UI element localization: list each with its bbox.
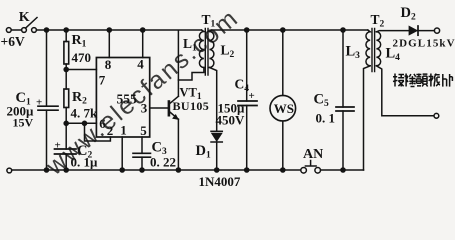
wire R1 branch	[65, 30, 67, 42]
node pin8 top	[107, 28, 111, 32]
node C3 ground	[140, 168, 144, 172]
terminal output bottom	[434, 113, 439, 118]
node pin4 top	[141, 28, 145, 32]
capacitor C5	[336, 107, 354, 111]
diode D2	[409, 26, 417, 35]
svg-text:WS: WS	[274, 101, 294, 116]
diode D1	[211, 130, 222, 132]
node WS ground	[281, 168, 285, 172]
terminal output top	[434, 28, 439, 33]
ground rail bottom	[12, 169, 364, 171]
svg-text:L2: L2	[221, 43, 235, 61]
svg-text:+: +	[55, 140, 61, 152]
svg-text:D1: D1	[196, 143, 211, 161]
svg-text:R2: R2	[72, 90, 87, 107]
wire L4 bottom to output	[376, 66, 433, 116]
wire emitter to ground	[177, 119, 179, 170]
wire C5 to ground	[342, 111, 344, 170]
watermark www.elecfans.com	[40, 3, 244, 181]
svg-text:15V: 15V	[13, 116, 34, 130]
svg-text:K: K	[19, 10, 30, 25]
transformer T1 core	[205, 29, 208, 76]
wire C1 branch	[46, 30, 48, 106]
wire R2 to node6	[65, 108, 67, 150]
node C4 ground	[245, 168, 249, 172]
svg-text:450V: 450V	[216, 113, 246, 128]
node C1 ground	[44, 168, 48, 172]
terminal ground left	[7, 168, 12, 173]
wire collector up / L1 bottom	[177, 31, 179, 97]
pushbutton AN	[301, 168, 307, 174]
wire pin7	[66, 69, 96, 71]
node pin6 junction R2	[64, 121, 68, 125]
node C5 top	[341, 28, 345, 32]
svg-text:+: +	[36, 97, 42, 109]
svg-text:BU105: BU105	[173, 99, 210, 113]
node emitter ground	[176, 168, 180, 172]
terminal +6V	[6, 28, 11, 33]
node C1 top	[44, 28, 48, 32]
wire L2 top to rail	[209, 30, 343, 32]
IC 555 box U1	[96, 58, 149, 138]
capacitor C4	[238, 101, 257, 106]
wire pin5 to C3	[141, 137, 143, 153]
wire pin6	[66, 122, 96, 124]
svg-text:0. 1μ: 0. 1μ	[71, 155, 99, 170]
svg-text:L3: L3	[346, 44, 361, 62]
node R1 top	[64, 28, 68, 32]
wire C4 branch	[246, 30, 248, 101]
svg-text:2DGL15kV: 2DGL15kV	[393, 38, 455, 50]
svg-text:D2: D2	[401, 5, 416, 23]
node pin7 junction	[64, 67, 68, 71]
svg-text:8: 8	[105, 57, 112, 72]
switch K lever	[26, 18, 38, 29]
wire C4 to ground	[246, 106, 248, 171]
wire WS top branch	[282, 30, 284, 95]
svg-text:0. 1: 0. 1	[316, 111, 336, 126]
transformer T2 core	[372, 29, 375, 72]
svg-text:+6V: +6V	[1, 34, 25, 49]
wire D2 to output	[418, 30, 434, 32]
wire L3 bottom to ground rail	[364, 66, 371, 170]
wire WS to ground	[282, 121, 284, 170]
node pin2 junction	[82, 121, 86, 125]
wire C1 to ground rail	[46, 110, 48, 170]
svg-text:5: 5	[140, 123, 147, 138]
svg-text:+: +	[249, 90, 255, 102]
transformer T1 winding L2	[209, 32, 214, 68]
wire L3 top to rail	[343, 29, 368, 31]
transformer T1 winding L1	[199, 30, 204, 68]
wire C3 to ground	[141, 157, 143, 170]
svg-text:4. 7k: 4. 7k	[71, 106, 99, 121]
wire pin8	[108, 30, 110, 58]
node C2 ground	[64, 168, 68, 172]
node D1 ground	[215, 168, 219, 172]
node WS top	[281, 28, 285, 32]
svg-text:C5: C5	[314, 92, 329, 110]
svg-text:6: 6	[99, 116, 106, 131]
resistor R2	[64, 89, 69, 108]
svg-text:555: 555	[117, 92, 138, 107]
capacitor C1	[38, 106, 58, 110]
wire C2 to ground	[65, 154, 67, 170]
svg-text:1: 1	[120, 123, 127, 138]
lamp WS circle	[270, 95, 296, 121]
wire L2 bottom to D1	[209, 68, 216, 132]
wire pin3 to base	[150, 107, 168, 109]
top rail +6V wire	[11, 29, 201, 31]
svg-text:T2: T2	[371, 12, 385, 30]
label jie chu chan ban pian (CJK glyph strokes)	[393, 74, 452, 87]
wire D1 to ground	[216, 142, 218, 170]
node C4 top	[245, 28, 249, 32]
svg-text:AN: AN	[303, 147, 323, 162]
wire C5 branch	[342, 30, 344, 107]
wire L4 top to D2	[376, 31, 409, 32]
switch K contact circles	[22, 28, 27, 33]
wire pin2 route	[85, 123, 111, 141]
svg-text:470: 470	[72, 50, 92, 65]
svg-text:1N4007: 1N4007	[199, 174, 241, 189]
wire L1 bottom jog	[178, 68, 204, 81]
wire pin4	[142, 30, 144, 58]
svg-text:2: 2	[107, 123, 114, 138]
node C5 ground	[341, 168, 345, 172]
svg-text:3: 3	[141, 101, 148, 116]
wire R1 to node7	[65, 64, 67, 89]
capacitor C2	[55, 149, 77, 154]
transformer T2 winding L3	[366, 30, 370, 66]
svg-text:4: 4	[137, 57, 144, 72]
svg-text:7: 7	[99, 73, 106, 88]
resistor R1	[64, 42, 69, 65]
svg-text:R1: R1	[72, 33, 87, 50]
transformer T2 winding L4	[376, 32, 380, 66]
capacitor C3	[133, 153, 151, 157]
transistor VT1 base bar	[168, 102, 171, 116]
transistor VT1 collector	[170, 96, 179, 103]
node pin1 ground	[120, 168, 124, 172]
svg-text:0. 22: 0. 22	[150, 155, 176, 170]
wire pin1 to ground	[121, 137, 123, 170]
transistor VT1 emitter with arrow	[170, 112, 179, 119]
